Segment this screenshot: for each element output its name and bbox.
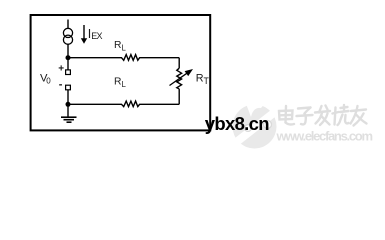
svg-text:www.elecfans.com: www.elecfans.com: [276, 129, 374, 144]
svg-text:RT: RT: [196, 73, 210, 87]
svg-text:+: +: [58, 63, 64, 74]
svg-text:V0: V0: [40, 73, 51, 86]
svg-text:RL: RL: [114, 77, 126, 89]
svg-text:-: -: [59, 79, 63, 91]
svg-text:IEX: IEX: [88, 27, 103, 41]
svg-text:RL: RL: [114, 40, 126, 52]
svg-text:ybx8.cn: ybx8.cn: [205, 113, 270, 134]
